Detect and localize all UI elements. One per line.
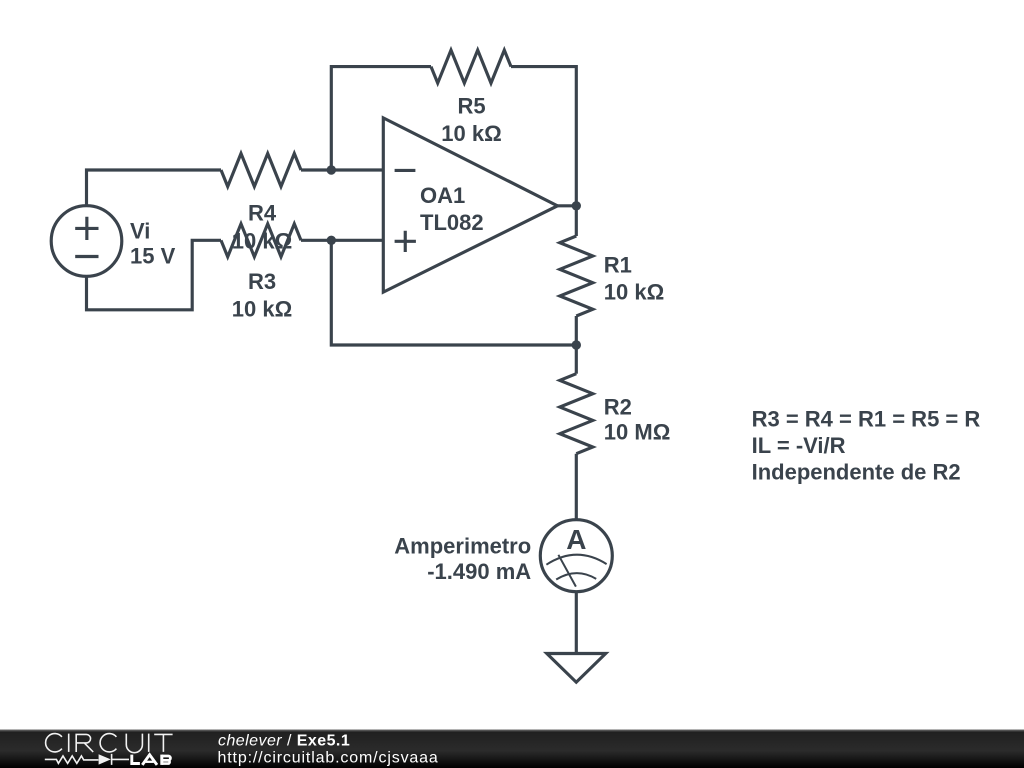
- svg-text:Vi: Vi: [130, 219, 150, 244]
- resistor R4: [221, 154, 301, 187]
- op-amp OA1 triangle: [383, 118, 557, 292]
- resistor R3: [221, 224, 301, 257]
- svg-text:chelever / Exe5.1: chelever / Exe5.1: [218, 733, 350, 750]
- wire op-amp output to node B: [558, 204, 577, 207]
- label Vi 15 V: [130, 219, 176, 269]
- svg-text:10 kΩ: 10 kΩ: [604, 279, 664, 304]
- CircuitLab logo CIRCUIT: [46, 734, 173, 753]
- wire node C down to R2: [575, 345, 578, 374]
- wire R3 to op-amp plus input: [301, 239, 383, 242]
- voltage source V1 symbol: [51, 206, 122, 277]
- wire source bottom to R3: [87, 240, 222, 309]
- op-amp plus marker: [395, 231, 416, 252]
- ground symbol: [547, 654, 606, 683]
- label R4 10 kOhm: [232, 200, 292, 253]
- ammeter AM1 symbol: [540, 520, 612, 592]
- label R5 10 kOhm: [441, 94, 501, 146]
- resistor R2: [560, 374, 593, 454]
- label R2 10 MOhm: [604, 395, 671, 445]
- svg-text:Independente de R2: Independente de R2: [752, 460, 961, 485]
- node C junction dot: [572, 340, 581, 349]
- svg-text:-1.490 mA: -1.490 mA: [427, 559, 531, 584]
- wire feedback from node A up and over R5: [331, 67, 431, 170]
- CircuitLab logo LAB: [132, 755, 171, 765]
- svg-text:R2: R2: [604, 395, 632, 420]
- wire ammeter to ground: [575, 592, 578, 654]
- node A junction dot: [327, 165, 336, 174]
- resistor R1: [560, 236, 593, 316]
- resistor R5: [431, 50, 511, 83]
- node plus junction dot: [327, 236, 336, 245]
- svg-text:OA1: OA1: [420, 183, 465, 208]
- svg-text:R3 = R4 = R1 = R5 = R: R3 = R4 = R1 = R5 = R: [752, 407, 981, 432]
- svg-text:R1: R1: [604, 253, 632, 278]
- svg-text:R3: R3: [248, 269, 276, 294]
- svg-text:http://circuitlab.com/cjsvaaa: http://circuitlab.com/cjsvaaa: [218, 750, 439, 767]
- svg-text:R4: R4: [248, 200, 277, 225]
- wire R2 to ammeter: [575, 454, 578, 520]
- wire node B down to R1: [575, 206, 578, 236]
- CircuitLab logo resistor-diode squiggle: [45, 754, 129, 765]
- svg-text:A: A: [566, 524, 586, 555]
- node B junction dot: [572, 201, 581, 210]
- wire R5 to output node: [511, 67, 576, 206]
- wire R1 bottom to node C: [575, 316, 578, 345]
- label OA1 TL082: [420, 183, 484, 235]
- svg-text:R5: R5: [457, 94, 485, 119]
- svg-text:Amperimetro: Amperimetro: [394, 533, 531, 558]
- annotation text block: [752, 407, 981, 485]
- label R1 10 kOhm: [604, 253, 664, 305]
- wire source top to R4: [87, 170, 222, 206]
- svg-text:15 V: 15 V: [130, 244, 176, 269]
- wire R4 to op-amp inverting input: [301, 168, 383, 171]
- label Amperimetro value: [394, 533, 531, 583]
- wire node C to plus node and up: [331, 240, 576, 345]
- label R3 10 kOhm: [232, 269, 292, 322]
- footer bar: [0, 730, 1024, 768]
- svg-text:10 kΩ: 10 kΩ: [232, 297, 292, 322]
- svg-text:10 MΩ: 10 MΩ: [604, 420, 671, 445]
- op-amp minus marker: [395, 169, 416, 172]
- svg-text:TL082: TL082: [420, 210, 484, 235]
- svg-text:10 kΩ: 10 kΩ: [232, 229, 292, 254]
- svg-text:IL = -Vi/R: IL = -Vi/R: [752, 433, 846, 458]
- svg-text:10 kΩ: 10 kΩ: [441, 121, 501, 146]
